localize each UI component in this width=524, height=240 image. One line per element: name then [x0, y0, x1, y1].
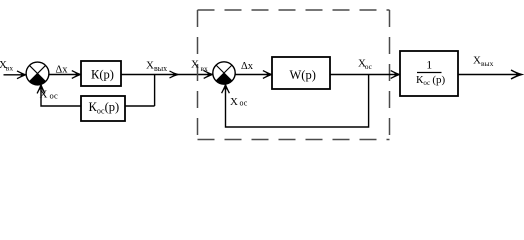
dashed boundary of equivalent system [198, 10, 390, 140]
svg-text:ос: ос [240, 98, 248, 107]
wire: input to summing junction [4, 74, 26, 76]
node Xвх (input label) [0, 59, 13, 73]
wire: feedback tap down from output line [154, 75, 156, 107]
wire: summing junction to W(p) [235, 74, 271, 76]
svg-text:Кос(р): Кос(р) [89, 100, 120, 116]
svg-text:К(р): К(р) [91, 68, 114, 82]
summing junction S2 (circle with X, bottom sector filled) [213, 62, 235, 84]
block 1/Koc(p) [400, 51, 458, 96]
svg-text:X: X [191, 59, 199, 71]
svg-text:W(p): W(p) [290, 68, 316, 82]
arrowhead mid-line (output of left diagram) [170, 71, 179, 78]
svg-text:Кос (р): Кос (р) [416, 74, 445, 87]
svg-text:X: X [146, 59, 154, 71]
node Xос label (near summing junction S2) [230, 96, 248, 108]
wire: into Koc(p) right side [125, 105, 155, 107]
summing junction S1 (circle with X, bottom sector filled) [26, 62, 49, 85]
node Xос label (above output line) [358, 58, 373, 71]
svg-text:X: X [40, 89, 48, 101]
node Xвых (final output label) [473, 55, 494, 69]
node Xвых (left diagram output label) [146, 59, 167, 73]
node Xос label (left diagram) [40, 89, 58, 101]
svg-text:Δx: Δx [241, 61, 254, 72]
wire: feedback of second diagram [226, 75, 369, 128]
block K(p) [81, 61, 121, 86]
svg-text:ос: ос [50, 90, 58, 100]
svg-text:вых: вых [154, 64, 167, 73]
block W(p) [272, 57, 330, 89]
svg-text:вх: вх [6, 64, 14, 73]
node Xвх (second diagram input label) [191, 59, 208, 74]
wire: W(p) output to 1/Koc(p) block [330, 74, 399, 76]
wire: Koc(p) output back to summing junction [41, 85, 81, 106]
svg-text:1: 1 [426, 57, 432, 71]
svg-text:ос: ос [365, 62, 373, 71]
wire: K(p) output running to second diagram [121, 74, 212, 76]
svg-text:вх: вх [201, 64, 209, 73]
svg-text:X: X [473, 55, 481, 67]
wire: final output [458, 74, 519, 76]
svg-text:X: X [230, 96, 238, 108]
arrowhead final output (open style) [511, 70, 522, 79]
svg-text:Δx: Δx [56, 64, 69, 75]
block Koc(p) [81, 96, 125, 121]
svg-text:вых: вых [481, 59, 494, 68]
wire: summing junction to K(p) [49, 74, 80, 76]
